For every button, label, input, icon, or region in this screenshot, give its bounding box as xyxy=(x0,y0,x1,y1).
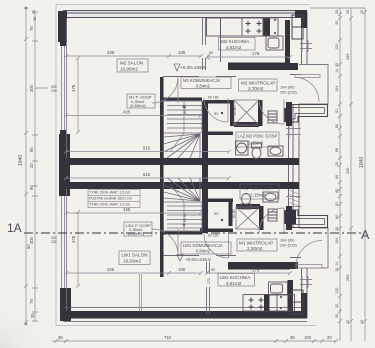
svg-text:19: 19 xyxy=(335,268,339,272)
svg-text:M1 WIATROLAP: M1 WIATROLAP xyxy=(239,240,273,245)
svg-text:4,81m2: 4,81m2 xyxy=(226,281,242,286)
svg-text:+0,00=248,5: +0,00=248,5 xyxy=(185,257,211,262)
svg-text:120: 120 xyxy=(335,288,339,294)
svg-text:300: 300 xyxy=(29,236,34,244)
svg-text:60: 60 xyxy=(335,124,339,128)
svg-text:LW1 KUCHNIA: LW1 KUCHNIA xyxy=(220,275,252,280)
svg-text:20: 20 xyxy=(327,335,332,340)
svg-text:50: 50 xyxy=(26,244,31,249)
svg-text:PUSTAK GLANA 18/21 cm: PUSTAK GLANA 18/21 cm xyxy=(89,197,132,201)
svg-text:20: 20 xyxy=(346,10,350,14)
svg-text:35: 35 xyxy=(58,335,63,340)
svg-text:475: 475 xyxy=(71,84,76,92)
svg-text:90: 90 xyxy=(209,51,213,55)
svg-text:1040: 1040 xyxy=(18,155,24,166)
svg-text:0,84m2: 0,84m2 xyxy=(196,83,211,88)
svg-text:M2 SALON: M2 SALON xyxy=(120,61,143,66)
svg-text:M2 KUCHNIA: M2 KUCHNIA xyxy=(221,39,250,44)
svg-text:100: 100 xyxy=(304,335,312,340)
svg-text:35: 35 xyxy=(335,63,339,67)
svg-text:20: 20 xyxy=(335,162,339,166)
svg-text:515: 515 xyxy=(143,172,151,177)
svg-text:3,15m2: 3,15m2 xyxy=(248,141,264,146)
svg-text:80: 80 xyxy=(335,189,339,193)
svg-text:120: 120 xyxy=(335,44,339,50)
svg-text:330: 330 xyxy=(346,168,350,174)
svg-text:(6,50m2): (6,50m2) xyxy=(130,103,147,108)
svg-text:100: 100 xyxy=(178,50,186,55)
svg-text:710: 710 xyxy=(164,335,172,340)
svg-text:100: 100 xyxy=(178,267,186,272)
svg-text:300: 300 xyxy=(29,84,34,92)
svg-text:175: 175 xyxy=(252,268,260,273)
svg-text:60: 60 xyxy=(335,215,339,219)
svg-text:20: 20 xyxy=(32,10,36,14)
svg-text:325: 325 xyxy=(107,50,115,55)
svg-text:285: 285 xyxy=(346,54,350,60)
svg-text:79: 79 xyxy=(29,299,34,304)
svg-text:60 165: 60 165 xyxy=(208,234,218,238)
svg-text:60 80: 60 80 xyxy=(233,106,237,115)
svg-text:230 (215): 230 (215) xyxy=(280,90,297,95)
svg-text:35: 35 xyxy=(335,10,339,14)
svg-text:(6,50m2): (6,50m2) xyxy=(128,231,145,236)
svg-text:20: 20 xyxy=(346,320,350,324)
svg-text:285: 285 xyxy=(346,275,350,281)
svg-text:515: 515 xyxy=(143,146,151,151)
svg-text:230 (215): 230 (215) xyxy=(280,243,297,248)
svg-text:4,81m2: 4,81m2 xyxy=(226,45,242,50)
svg-text:230: 230 xyxy=(51,240,57,244)
svg-text:90: 90 xyxy=(214,111,219,116)
svg-text:LAZ.M2 POM. GOSP: LAZ.M2 POM. GOSP xyxy=(238,134,278,139)
svg-text:35: 35 xyxy=(335,314,339,318)
svg-text:90: 90 xyxy=(214,211,219,216)
svg-text:TYNK CEM.-WAP. 1,5 cm: TYNK CEM.-WAP. 1,5 cm xyxy=(89,191,130,195)
svg-text:TYNK CEM.-WAP. 1,5 cm: TYNK CEM.-WAP. 1,5 cm xyxy=(89,203,130,207)
svg-text:175: 175 xyxy=(252,51,260,56)
svg-text:69: 69 xyxy=(335,175,339,179)
svg-text:0,84m2: 0,84m2 xyxy=(196,248,211,253)
svg-text:25: 25 xyxy=(335,227,339,231)
svg-text:14: 14 xyxy=(335,69,339,73)
svg-text:80 90: 80 90 xyxy=(183,105,187,114)
svg-text:104: 104 xyxy=(335,238,339,244)
svg-text:425: 425 xyxy=(123,207,131,212)
svg-text:95: 95 xyxy=(29,185,34,190)
svg-text:95: 95 xyxy=(29,147,34,152)
svg-text:60 165: 60 165 xyxy=(208,96,218,100)
svg-text:79: 79 xyxy=(29,26,34,31)
svg-text:M1 POM. GOSP: M1 POM. GOSP xyxy=(242,186,273,191)
svg-text:80 90: 80 90 xyxy=(183,213,187,222)
svg-text:32: 32 xyxy=(335,21,339,25)
svg-text:19,95m2: 19,95m2 xyxy=(120,67,138,72)
svg-text:M2 KOMUNIKACJA: M2 KOMUNIKACJA xyxy=(183,78,220,83)
svg-text:14: 14 xyxy=(335,262,339,266)
svg-text:271: 271 xyxy=(207,278,211,284)
svg-text:425: 425 xyxy=(123,110,131,115)
svg-text:LW1 SALON: LW1 SALON xyxy=(122,253,148,258)
svg-text:32: 32 xyxy=(335,304,339,308)
svg-text:475: 475 xyxy=(71,235,76,243)
svg-text:51: 51 xyxy=(335,202,339,206)
svg-text:19,93m2: 19,93m2 xyxy=(123,259,141,264)
svg-text:1A: 1A xyxy=(7,221,22,235)
svg-text:2,15m2: 2,15m2 xyxy=(250,193,266,198)
svg-text:20: 20 xyxy=(29,163,34,168)
svg-text:69: 69 xyxy=(335,148,339,152)
svg-text:M2 WIATROLAP: M2 WIATROLAP xyxy=(241,80,275,85)
svg-text:20: 20 xyxy=(360,320,364,324)
svg-text:LW1 KOMUNIKACJA: LW1 KOMUNIKACJA xyxy=(183,243,223,248)
svg-text:60 80: 60 80 xyxy=(232,209,236,218)
svg-text:90: 90 xyxy=(211,268,215,272)
svg-text:2,20m2: 2,20m2 xyxy=(247,246,263,251)
svg-text:2,70m2: 2,70m2 xyxy=(248,86,264,91)
svg-text:35: 35 xyxy=(30,313,35,318)
svg-text:+0,00=248,5: +0,00=248,5 xyxy=(180,65,206,70)
svg-text:35: 35 xyxy=(33,17,37,21)
svg-text:230: 230 xyxy=(51,89,57,93)
svg-text:104: 104 xyxy=(335,86,339,92)
svg-text:A: A xyxy=(361,228,370,242)
svg-text:51: 51 xyxy=(335,109,339,113)
svg-text:35: 35 xyxy=(290,335,295,340)
svg-text:20: 20 xyxy=(360,10,364,14)
svg-text:325: 325 xyxy=(107,267,115,272)
svg-text:1040: 1040 xyxy=(359,157,365,168)
